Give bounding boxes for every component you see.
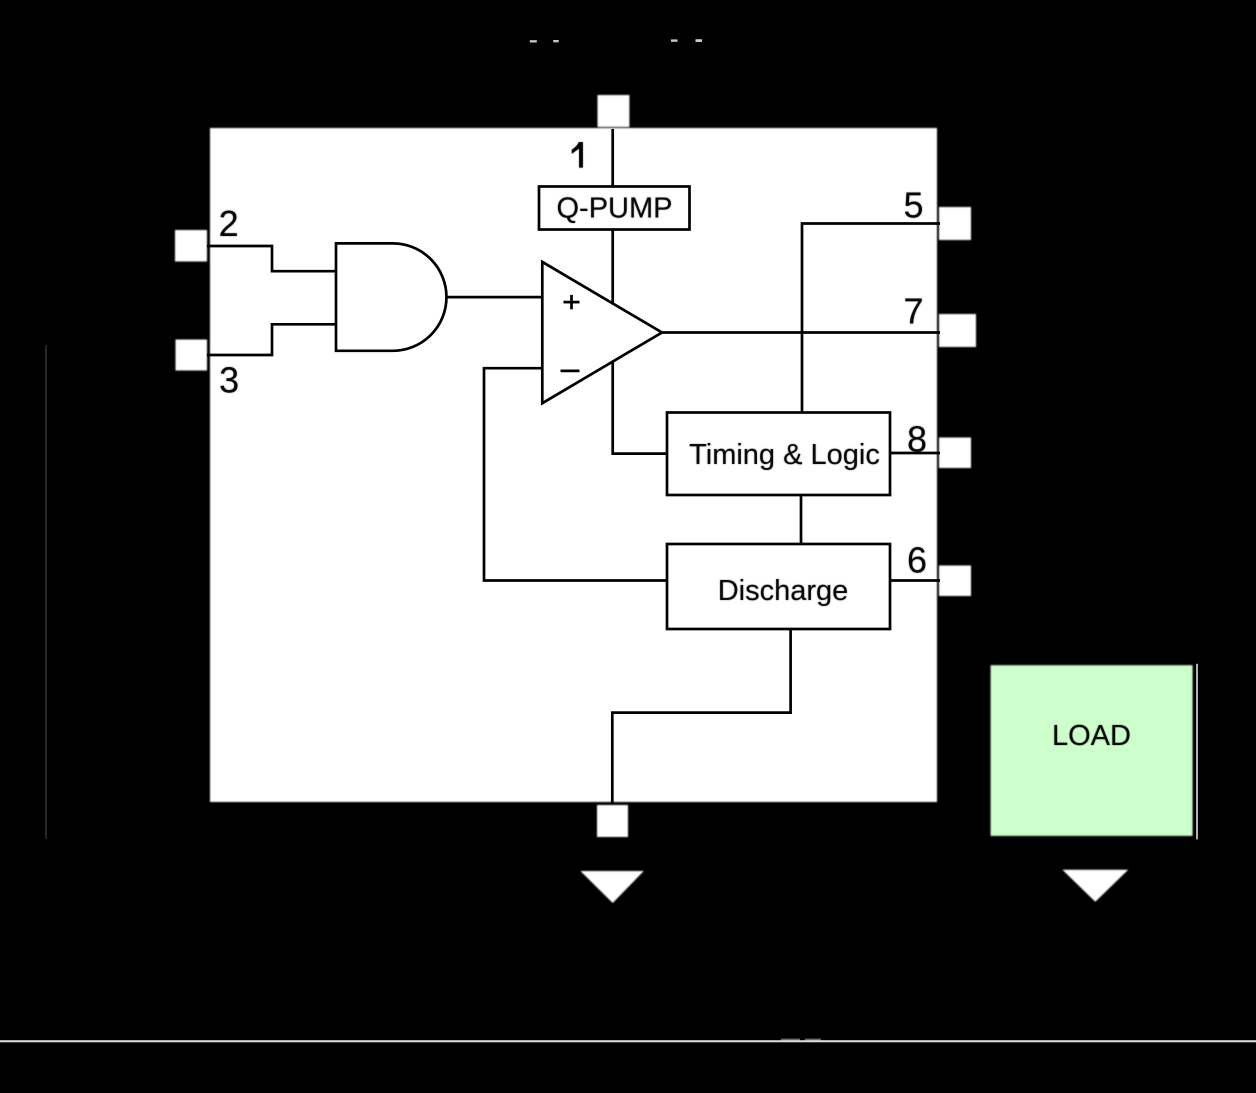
svg-text:Discharge: Discharge	[718, 575, 849, 607]
svg-text:7: 7	[903, 291, 923, 332]
svg-text:LOAD: LOAD	[1052, 720, 1131, 752]
svg-text:6: 6	[907, 540, 927, 581]
svg-text:2: 2	[219, 203, 239, 244]
svg-text:3: 3	[219, 360, 239, 401]
svg-text:Q-PUMP: Q-PUMP	[557, 192, 673, 224]
svg-text:Timing & Logic: Timing & Logic	[689, 439, 880, 471]
svg-text:5: 5	[903, 185, 923, 226]
svg-text:8: 8	[907, 419, 927, 460]
